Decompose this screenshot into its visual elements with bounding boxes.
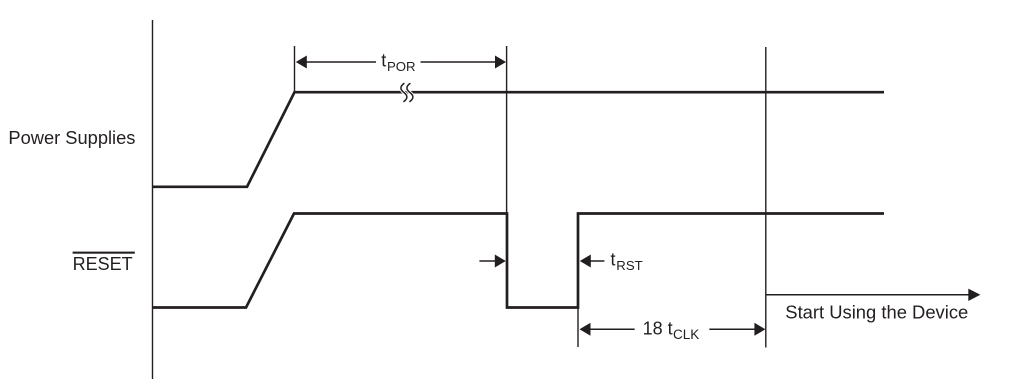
break squiggle on power line (401, 84, 413, 102)
wire: power supplies low level (153, 92, 885, 187)
arrow into reset falling edge (479, 260, 496, 262)
tick marker at tPOR end / reset fall (506, 46, 508, 213)
tRST arrow (590, 260, 605, 262)
RESET overline (73, 252, 135, 254)
svg-text:Power Supplies: Power Supplies (8, 127, 135, 148)
svg-text:Start Using the Device: Start Using the Device (785, 301, 968, 322)
svg-text:CLK: CLK (673, 327, 699, 342)
svg-text:t: t (381, 50, 386, 70)
svg-text:t: t (611, 250, 616, 270)
wire: RESET waveform (153, 214, 885, 308)
tick marker below reset rise (577, 308, 579, 348)
18 tCLK dimension arrow right (709, 328, 756, 330)
start using the device arrow (766, 294, 969, 296)
svg-text:POR: POR (387, 59, 416, 74)
vertical axis line (152, 20, 154, 379)
tick marker at tPOR start (294, 46, 296, 92)
tPOR dimension arrow right (421, 61, 497, 63)
tPOR dimension arrow left (306, 61, 377, 63)
18 tCLK dimension arrow left (590, 328, 635, 330)
svg-text:RESET: RESET (73, 254, 133, 274)
svg-text:18 t: 18 t (643, 318, 673, 338)
svg-text:RST: RST (616, 258, 642, 273)
tick marker at device start (765, 47, 767, 348)
